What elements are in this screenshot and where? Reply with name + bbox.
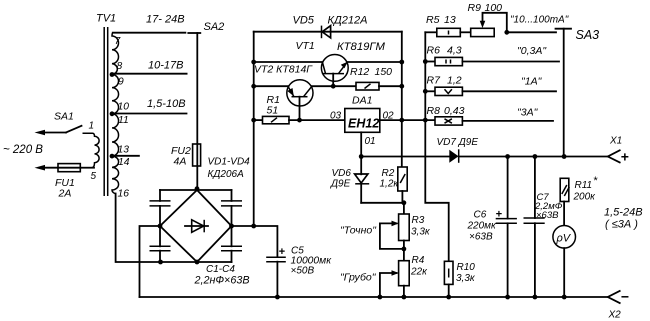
svg-text:"10...100mА": "10...100mА" [510,15,569,26]
svg-text:4А: 4А [174,156,187,168]
resistor R8 [435,117,462,125]
svg-text:2,2нФ×63В: 2,2нФ×63В [194,275,250,287]
wire R11 to voltmeter [563,202,565,226]
svg-text:−: − [621,289,629,305]
svg-text:13: 13 [444,14,456,26]
svg-text:SA3: SA3 [576,28,600,42]
svg-text:200к: 200к [573,192,597,203]
svg-text:R7: R7 [427,75,442,87]
svg-text:16: 16 [118,189,130,200]
op-amp regulator DA1 EN12 [345,109,380,133]
potentiometer R9 [460,13,507,37]
transformer TV1 secondary winding [112,33,119,194]
svg-text:01: 01 [365,136,376,147]
junction R4 wiper at rail [378,295,383,300]
transistor VT2 [287,80,313,120]
svg-text:X2: X2 [608,310,622,321]
svg-text:+: + [621,149,629,165]
svg-text:R6: R6 [427,45,441,57]
svg-text:КД212А: КД212А [328,15,368,27]
wire VT2 collector to R12 [312,85,356,87]
svg-text:100: 100 [485,2,503,14]
wire mains upper with arrow [35,130,67,136]
transformer TV1 primary winding [83,133,100,168]
junction raw plus takeoff [251,224,256,229]
junction R1 left at bus [251,118,256,123]
wire R3 bottom lead [403,241,405,261]
svg-text:( ≤3А ): ( ≤3А ) [605,219,638,231]
wire tap 8 contact [112,73,187,75]
svg-text:×50В: ×50В [291,266,315,277]
resistor R6 [425,57,462,65]
resistor R2 [398,167,407,191]
wire VT1 emitter line [347,61,402,63]
svg-text:10-17В: 10-17В [148,60,183,72]
wire output node vertical [401,32,403,167]
bridge inner diode symbol [185,220,208,233]
wire R12 to output node [379,85,402,87]
svg-text:Д9Е: Д9Е [330,179,351,190]
junction R3 bottom node [402,247,407,252]
svg-text:R5: R5 [426,14,440,26]
resistor R5 [425,28,460,36]
junction R4 bottom at rail [402,295,407,300]
svg-text:"Грубо": "Грубо" [340,272,377,284]
capacitor C4 (bottom-right) [221,226,242,262]
wire R1 to DA1 pin 03 [289,119,345,121]
wire bottom minus rail [140,296,608,298]
svg-text:2А: 2А [58,188,72,200]
junction at bridge bottom-left corner [158,260,163,265]
transistor VT1 [321,55,348,87]
connector X1 [608,150,620,162]
wire DA1 pin 02 line [380,119,435,121]
svg-text:"Точно": "Точно" [340,225,377,237]
svg-text:×63В: ×63В [536,210,559,221]
wire VT2 emitter line [254,85,289,87]
svg-text:КТ819ГМ: КТ819ГМ [337,41,386,53]
wire raw plus bus vertical [253,32,255,226]
svg-text:5: 5 [91,171,97,182]
transformer TV1 core [104,27,108,196]
wire VD5 top line [254,31,402,33]
wire DA1 pin 01 lead [360,132,362,156]
wire R1 row / DA1 input line [254,119,263,121]
svg-text:51: 51 [267,105,279,117]
wire plus rail VD7 to X1 [459,156,608,158]
wire to SA3 contact 10..100mA [507,31,556,33]
svg-text:ЕН12: ЕН12 [348,117,379,131]
svg-text:3,3к: 3,3к [411,227,431,238]
wire bridge plus: right vertex to C5 corner [232,226,278,257]
capacitor C2 (top-right) [221,190,242,226]
wire bridge minus: left vertex to bottom rail [140,226,161,297]
svg-text:+: + [279,246,286,258]
svg-text:17- 24В: 17- 24В [146,14,185,26]
switch SA3 arm [556,29,572,157]
fuse FU1 [58,164,80,172]
svg-text:14: 14 [118,157,130,168]
svg-text:03: 03 [330,111,342,122]
wire R8 to contact 3A [462,120,553,122]
svg-text:8: 8 [117,61,123,72]
svg-text:R2: R2 [382,168,395,179]
junction R6 at bus [423,59,428,64]
svg-text:13: 13 [118,145,130,156]
wire VD6 cathode to R2 bottom [361,202,404,204]
resistor R10 [444,261,453,284]
svg-text:×63В: ×63В [469,232,493,243]
svg-text:R4: R4 [412,255,425,266]
svg-text:VD7 Д9Е: VD7 Д9Е [437,137,479,148]
switch SA2 arm [188,33,200,144]
potentiometer R3 [380,214,409,249]
svg-text:+: + [496,209,503,221]
junction VT2 base node [297,118,302,123]
wire tap 7 to SA2 contact [113,32,186,34]
capacitor C5 [266,257,286,297]
potentiometer R4 [380,261,409,297]
svg-text:R11: R11 [575,180,593,191]
svg-text:ρV: ρV [556,233,572,245]
wire voltmeter to rail [563,248,565,297]
svg-text:9: 9 [118,77,124,88]
svg-text:VD6: VD6 [332,168,352,179]
resistor R1 [263,116,290,123]
wire right bus R5-R8 vertical [424,32,426,120]
svg-text:1,5-24В: 1,5-24В [604,207,643,219]
junction 02 at right bus [423,118,428,123]
wire mains lower with arrow [35,165,59,171]
junction bridge right vertex [229,224,234,229]
junction tap 10/11 [110,111,115,116]
svg-text:1,2к: 1,2к [380,179,400,190]
junction tap 8/9 [110,72,115,77]
wire R10 bottom lead [448,284,450,297]
wire R7 to contact 1A [462,90,556,92]
bridge box bottom side [160,261,232,263]
junction R12 right [399,84,404,89]
svg-text:КД206А: КД206А [208,169,245,180]
wire R2 bottom lead [401,191,403,203]
svg-text:VD5: VD5 [293,15,315,27]
junction C7 top [533,154,538,159]
svg-text:1,5-10В: 1,5-10В [147,98,186,110]
junction 02 at output node [399,118,404,123]
switch SA1 [66,126,82,133]
svg-text:0,43: 0,43 [444,105,465,117]
diode VD5 [322,26,331,39]
capacitor C1 (top-left) [150,190,171,226]
svg-text:7: 7 [115,36,122,47]
junction C7 bottom [533,295,538,300]
svg-text:SA1: SA1 [54,111,74,123]
wire VT1 collector line [254,61,323,63]
junction C6 bottom [505,295,510,300]
junction R9 output [504,30,509,35]
svg-text:R10: R10 [457,262,476,273]
diode VD6 [355,157,370,203]
svg-text:1: 1 [89,121,95,132]
svg-text:"1А": "1А" [521,76,543,88]
svg-text:11: 11 [118,115,129,126]
svg-text:С6: С6 [474,210,487,221]
svg-text:22к: 22к [410,267,428,278]
capacitor C6 [496,157,517,298]
svg-text:VT1: VT1 [296,40,315,52]
svg-text:VD1-VD4: VD1-VD4 [208,157,251,168]
resistor R12 [356,82,379,90]
svg-text:R8: R8 [427,105,441,117]
rectifier bridge VD1-VD4 diamond [160,190,232,262]
junction VT2 emitter at bus [251,84,256,89]
wire pin 01 node to VD7 [361,156,449,158]
wire right bus down to R10 jog [425,120,448,261]
junction R11 top [562,154,567,159]
fuse FU2 [193,144,201,189]
svg-text:~ 220 В: ~ 220 В [3,144,43,156]
svg-text:X1: X1 [609,136,622,147]
svg-text:"0,3А": "0,3А" [517,45,547,57]
wire FU1 to primary [80,167,94,169]
resistor R7 [425,87,462,95]
junction VT1 base [331,84,336,89]
svg-text:TV1: TV1 [96,13,116,25]
wire node to R3 top [403,203,405,214]
svg-text:DA1: DA1 [352,95,372,107]
wire tap 10 contact [112,113,187,115]
junction C6 top [505,154,510,159]
junction bridge left vertex [158,224,163,229]
svg-text:R12: R12 [350,66,369,78]
junction R10 at rail [446,295,451,300]
wire winding end 16 to bridge bottom-left [116,194,160,263]
wire tap 13 stub [112,155,139,157]
junction bridge top vertex [195,186,200,191]
junction VT1 collector at bus [251,60,256,65]
wire R4 bottom lead [403,286,405,297]
svg-text:10: 10 [118,102,130,113]
wire R6 to contact 0,3A [462,61,559,63]
svg-text:*: * [593,175,598,187]
svg-text:R9: R9 [468,2,482,14]
junction tap 13/14 [110,154,115,159]
svg-text:С1-С4: С1-С4 [206,264,235,275]
voltmeter PV [553,226,576,249]
bridge box top side [160,189,232,191]
svg-text:220мк: 220мк [467,221,498,232]
junction bridge bottom vertex [195,260,200,265]
capacitor C7 [524,157,545,298]
svg-text:4,3: 4,3 [447,45,462,57]
svg-text:1,2: 1,2 [447,75,462,87]
svg-text:150: 150 [375,66,393,78]
svg-text:SA2: SA2 [204,21,225,33]
connector X2 [608,291,620,303]
diode VD7 [449,149,458,163]
junction voltmeter bottom [562,295,567,300]
resistor R11 [560,178,569,201]
svg-text:3,3к: 3,3к [456,273,476,284]
svg-text:R3: R3 [412,215,425,226]
junction C5 bottom [275,295,280,300]
svg-text:"3А": "3А" [517,107,539,119]
capacitor C3 (bottom-left) [150,226,171,262]
junction R7 at bus [423,89,428,94]
junction pin 01 node [359,154,364,159]
svg-text:VT2 КТ814Г: VT2 КТ814Г [254,64,313,76]
junction R2 bottom node [402,200,407,205]
junction VT1 emitter at output node [399,60,404,65]
